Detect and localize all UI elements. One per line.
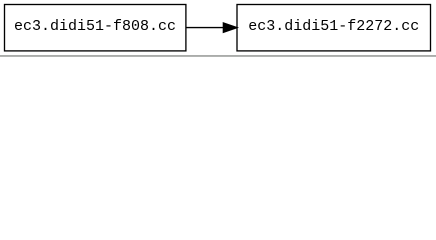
svg-text:ec3.didi51-f808.cc: ec3.didi51-f808.cc [14, 18, 176, 35]
node ec3.didi51-f2272.cc box [237, 5, 431, 51]
arrowhead [223, 23, 237, 33]
edge wire from f808 box to f2272 box [186, 27, 224, 29]
background [0, 0, 436, 59]
separator line at bottom [0, 55, 436, 57]
svg-text:ec3.didi51-f2272.cc: ec3.didi51-f2272.cc [248, 18, 419, 35]
node ec3.didi51-f808.cc box [5, 5, 186, 51]
